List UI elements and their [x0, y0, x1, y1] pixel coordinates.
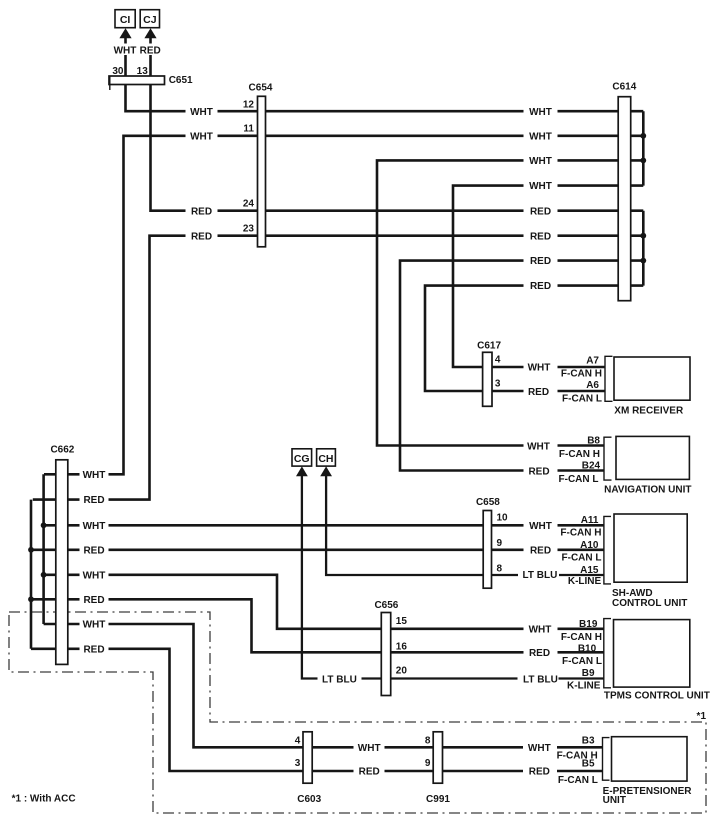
svg-text:K-LINE: K-LINE: [568, 576, 602, 587]
svg-text:RED: RED: [529, 767, 550, 778]
svg-text:F-CAN H: F-CAN H: [560, 528, 601, 539]
svg-text:WHT: WHT: [529, 131, 552, 142]
wire LT BLU CG arrow to C656-20 TPMS B9 K-LINE: [302, 476, 604, 679]
svg-text:B10: B10: [578, 643, 597, 654]
connector C651: [109, 76, 165, 85]
wire C662 left bus RED: [30, 500, 33, 649]
svg-text:NAVIGATION UNIT: NAVIGATION UNIT: [604, 485, 691, 496]
svg-text:C654: C654: [249, 83, 273, 94]
svg-text:A11: A11: [581, 515, 599, 526]
svg-text:24: 24: [243, 198, 255, 209]
connector CG box: [292, 449, 312, 466]
svg-text:F-CAN L: F-CAN L: [559, 474, 599, 485]
box XM RECEIVER: [614, 357, 690, 400]
svg-text:*1 : With ACC: *1 : With ACC: [12, 793, 76, 804]
svg-text:9: 9: [425, 758, 431, 769]
svg-text:A7: A7: [586, 355, 599, 366]
svg-text:LT BLU: LT BLU: [523, 675, 558, 686]
svg-text:3: 3: [295, 758, 301, 769]
svg-text:B5: B5: [582, 759, 595, 770]
wire RED C662 row4 to C658-9 SH-AWD A10: [31, 548, 604, 551]
svg-text:WHT: WHT: [83, 570, 106, 581]
svg-text:A15: A15: [580, 565, 599, 576]
svg-text:LT BLU: LT BLU: [522, 570, 557, 581]
svg-text:4: 4: [295, 736, 301, 747]
svg-text:WHT: WHT: [190, 107, 213, 118]
svg-text:RED: RED: [191, 231, 212, 242]
junction dot C662 bus RED row4: [28, 547, 34, 553]
wire WHT C614 row2 to C654-11 to C662 row1: [44, 136, 643, 475]
svg-text:8: 8: [425, 736, 431, 747]
wire RED C662 row8 to C603-3 C991-9 E-PRETENSIONER B5: [31, 649, 603, 771]
svg-text:RED: RED: [140, 46, 161, 57]
svg-text:C603: C603: [297, 794, 321, 805]
svg-text:LT BLU: LT BLU: [322, 674, 357, 685]
svg-text:CJ: CJ: [143, 14, 157, 26]
svg-text:B3: B3: [582, 735, 595, 746]
svg-text:RED: RED: [528, 387, 549, 398]
svg-text:RED: RED: [83, 495, 104, 506]
label-gap masks: [80, 44, 560, 778]
svg-text:RED: RED: [359, 767, 380, 778]
junction dot C614 bus row6: [640, 233, 646, 239]
svg-text:C614: C614: [612, 82, 636, 93]
svg-text:RED: RED: [530, 256, 551, 267]
junction dot C614 bus row3: [640, 158, 646, 164]
connector C603: [303, 732, 312, 783]
bracket TPMS CONTROL UNIT: [604, 619, 611, 688]
bracket E-PRETENSIONER UNIT: [603, 738, 610, 781]
svg-text:WHT: WHT: [529, 156, 552, 167]
connector C617: [483, 352, 492, 406]
svg-text:UNIT: UNIT: [603, 795, 626, 806]
svg-text:F-CAN L: F-CAN L: [562, 656, 602, 667]
svg-text:3: 3: [495, 379, 501, 390]
svg-text:WHT: WHT: [83, 521, 106, 532]
bracket XM RECEIVER: [605, 356, 613, 401]
connector CI box: [115, 10, 135, 28]
svg-text:XM RECEIVER: XM RECEIVER: [614, 406, 684, 417]
svg-text:23: 23: [243, 223, 255, 234]
wire WHT C614 row4 to C617-4 to XM RECEIVER A7: [453, 186, 643, 367]
svg-text:WHT: WHT: [83, 620, 106, 631]
svg-text:F-CAN H: F-CAN H: [559, 449, 600, 460]
svg-text:RED: RED: [191, 206, 212, 217]
wire WHT C651-30 to C654-12 to C614 row1: [126, 85, 644, 112]
wire C662 left bus WHT: [42, 474, 45, 624]
svg-text:B19: B19: [579, 619, 598, 630]
wire RED C614 row6 to C654-23 to C662 row2: [33, 236, 644, 500]
bracket NAVIGATION UNIT: [604, 437, 612, 480]
wire WHT C662 row5 to C656-15 TPMS B19: [44, 575, 604, 629]
arrowhead to CJ: [144, 28, 156, 38]
wire WHT C614 row3 to NAVIGATION UNIT B8: [377, 160, 643, 445]
connector C662: [56, 460, 68, 665]
svg-text:WHT: WHT: [529, 624, 552, 635]
svg-text:WHT: WHT: [528, 743, 551, 754]
wire RED C614 row7 to NAVIGATION UNIT B24: [400, 261, 643, 471]
svg-text:30: 30: [112, 66, 124, 77]
svg-text:F-CAN H: F-CAN H: [561, 369, 602, 380]
wire C614 right bus WHT: [642, 111, 645, 185]
junction dot C614 bus row7: [640, 258, 646, 264]
arrowhead to CG: [296, 466, 308, 476]
svg-text:F-CAN L: F-CAN L: [562, 552, 602, 563]
connector CH box: [317, 449, 336, 466]
junction dot C662 bus RED row6: [28, 596, 34, 602]
svg-text:WHT: WHT: [529, 107, 552, 118]
junction dot C662 bus WHT row5: [41, 572, 47, 578]
svg-text:CONTROL UNIT: CONTROL UNIT: [612, 598, 687, 609]
svg-text:CH: CH: [318, 453, 333, 465]
svg-text:11: 11: [243, 124, 254, 135]
box SH-AWD CONTROL UNIT: [614, 514, 687, 582]
box NAVIGATION UNIT: [616, 436, 689, 479]
arrowhead to CH: [320, 466, 332, 476]
junction dot C662 bus WHT row3: [41, 522, 47, 528]
bracket SH-AWD CONTROL UNIT: [604, 516, 611, 584]
svg-text:13: 13: [137, 66, 149, 77]
svg-text:B24: B24: [582, 461, 601, 472]
svg-text:10: 10: [497, 513, 509, 524]
svg-text:C617: C617: [477, 340, 501, 351]
svg-text:F-CAN H: F-CAN H: [561, 632, 602, 643]
connector C614: [618, 97, 631, 301]
connector CJ box: [140, 10, 159, 28]
svg-text:WHT: WHT: [358, 743, 381, 754]
svg-text:RED: RED: [530, 545, 551, 556]
connector C658: [483, 511, 491, 589]
svg-text:CI: CI: [120, 14, 131, 26]
svg-text:RED: RED: [83, 595, 104, 606]
svg-text:WHT: WHT: [529, 521, 552, 532]
svg-text:TPMS CONTROL UNIT: TPMS CONTROL UNIT: [604, 691, 710, 702]
svg-text:WHT: WHT: [83, 470, 106, 481]
svg-text:WHT: WHT: [190, 131, 213, 142]
svg-text:12: 12: [243, 99, 255, 110]
*1 With-ACC dash-dot boundary: [9, 612, 706, 813]
svg-text:F-CAN L: F-CAN L: [558, 775, 598, 786]
svg-text:C651: C651: [169, 75, 193, 86]
wire WHT C662 row7 to C603-4 C991-8 E-PRETENSIONER B3: [44, 624, 603, 747]
svg-text:15: 15: [396, 616, 408, 627]
junction dot C614 bus row2: [640, 133, 646, 139]
svg-text:C656: C656: [374, 600, 398, 611]
connector C654: [258, 96, 266, 247]
svg-text:K-LINE: K-LINE: [567, 680, 601, 691]
svg-text:A10: A10: [580, 540, 599, 551]
svg-text:RED: RED: [83, 545, 104, 556]
svg-text:WHT: WHT: [528, 363, 551, 374]
svg-text:F-CAN L: F-CAN L: [562, 394, 602, 405]
connector C651 left hook: [109, 76, 111, 90]
svg-text:16: 16: [396, 641, 408, 652]
svg-text:20: 20: [396, 666, 408, 677]
wire RED C651 pin13 arrow shaft to CJ: [149, 38, 152, 76]
svg-text:RED: RED: [530, 206, 551, 217]
svg-text:CG: CG: [294, 453, 310, 465]
svg-text:WHT: WHT: [529, 181, 552, 192]
wire RED C662 row6 to C656-16 TPMS B10: [31, 599, 604, 652]
wire LT BLU CH arrow to C658-8 SH-AWD A15 K-LINE: [326, 476, 604, 576]
svg-text:WHT: WHT: [527, 441, 550, 452]
wire RED C614 row8 to C617-3 to XM RECEIVER A6: [425, 286, 643, 391]
connector C991: [433, 732, 442, 783]
svg-text:9: 9: [497, 538, 503, 549]
svg-text:RED: RED: [530, 231, 551, 242]
svg-text:B9: B9: [582, 668, 595, 679]
arrowhead to CI: [119, 28, 131, 38]
svg-text:B8: B8: [587, 435, 600, 446]
svg-text:RED: RED: [83, 644, 104, 655]
svg-text:8: 8: [497, 564, 503, 575]
box E-PRETENSIONER UNIT: [612, 737, 688, 781]
box TPMS CONTROL UNIT: [614, 620, 690, 688]
svg-text:4: 4: [495, 354, 501, 365]
wire RED C651-13 to C654-24 to C614 row5: [151, 85, 644, 211]
svg-text:C991: C991: [426, 794, 450, 805]
svg-text:C658: C658: [476, 497, 500, 508]
wire C614 right bus RED: [642, 211, 645, 286]
wire WHT C651 pin30 arrow shaft to CI: [124, 38, 127, 76]
svg-text:RED: RED: [530, 281, 551, 292]
svg-text:C662: C662: [50, 445, 74, 456]
wire WHT C662 row3 to C658-10 SH-AWD A11: [44, 524, 604, 527]
connector C656: [381, 613, 390, 696]
svg-text:WHT: WHT: [114, 46, 137, 57]
svg-text:RED: RED: [529, 648, 550, 659]
svg-text:RED: RED: [528, 467, 549, 478]
svg-text:*1: *1: [697, 711, 707, 722]
svg-text:A6: A6: [586, 380, 599, 391]
